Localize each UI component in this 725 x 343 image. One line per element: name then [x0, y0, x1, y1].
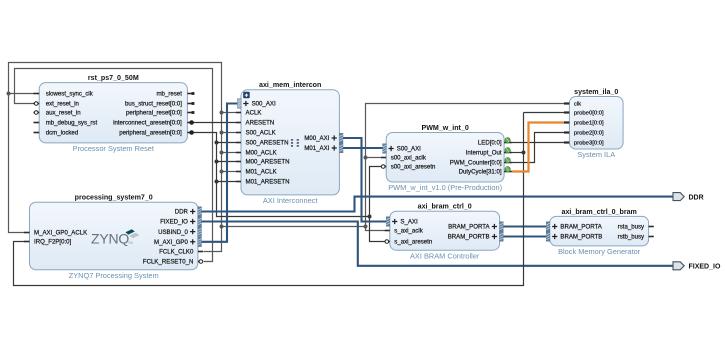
wire peripheral_aresetn to s_axi_aresetn	[370, 217, 385, 242]
svg-text:rsta_busy: rsta_busy	[618, 224, 645, 231]
svg-text:M01_ARESETN: M01_ARESETN	[246, 179, 290, 186]
port FIXED_IO	[673, 262, 721, 271]
pins system_ila left	[564, 102, 604, 147]
svg-text:S00_AXI: S00_AXI	[252, 101, 276, 108]
svg-text:BRAM_PORTB: BRAM_PORTB	[560, 234, 602, 241]
pins bram left	[546, 222, 603, 242]
logo ZYNQ	[91, 229, 139, 246]
svg-text:S00_ACLK: S00_ACLK	[246, 130, 276, 137]
svg-text:BRAM_PORTB: BRAM_PORTB	[448, 234, 490, 241]
svg-text:USBIND_0: USBIND_0	[158, 229, 188, 236]
svg-text:PWM_w_int_v1.0 (Pre-Production: PWM_w_int_v1.0 (Pre-Production)	[388, 183, 502, 192]
pins bram right	[618, 224, 654, 241]
wire FCLK_CLK0 east branch	[222, 227, 385, 231]
svg-text:aux_reset_in: aux_reset_in	[46, 110, 81, 117]
svg-text:ext_reset_in: ext_reset_in	[46, 101, 79, 108]
svg-text:S00_ARESETN: S00_ARESETN	[246, 140, 289, 147]
svg-text:LED[0:0]: LED[0:0]	[478, 140, 502, 147]
node FCLK dots on vertical	[220, 111, 224, 115]
svg-text:M00_ACLK: M00_ACLK	[246, 150, 277, 157]
wire peripheral_aresetn trunk	[193, 133, 370, 217]
svg-text:S_AXI: S_AXI	[400, 219, 418, 226]
wire peripheral_aresetn M00_ARESETN	[217, 161, 237, 163]
pins PWM left	[381, 144, 435, 171]
wire FCLK_CLK0 main loop	[9, 63, 222, 252]
svg-text:TM: TM	[128, 241, 133, 245]
wire FCLK_CLK0 ACLK branch	[222, 112, 237, 114]
wire peripheral_aresetn to s00_axi_aresetn	[370, 167, 382, 217]
block axi_bram_ctrl_0	[390, 203, 500, 261]
svg-text:interconnect_aresetn[0:0]: interconnect_aresetn[0:0]	[113, 120, 182, 127]
pins interconnect right M00_AXI M01_AXI	[304, 133, 343, 153]
block system_ila_0	[569, 88, 623, 159]
pins zynq left	[24, 230, 87, 246]
block PWM_w_int_0	[386, 124, 504, 192]
svg-text:M01_AXI: M01_AXI	[304, 145, 329, 152]
svg-text:DDR: DDR	[689, 194, 704, 201]
svg-text:peripheral_aresetn[0:0]: peripheral_aresetn[0:0]	[119, 130, 182, 137]
svg-text:probe3[0:0]: probe3[0:0]	[574, 141, 604, 147]
wire FCLK_CLK0 up to s00_axi_aclk and ILA clk	[366, 104, 565, 227]
svg-text:Interrupt_Out: Interrupt_Out	[466, 150, 502, 157]
svg-text:Block Memory Generator: Block Memory Generator	[558, 247, 641, 256]
wire bus FIXED_IO	[202, 222, 674, 266]
wire LED to probe3	[512, 142, 565, 144]
svg-text:M_AXI_GP0_ACLK: M_AXI_GP0_ACLK	[34, 230, 87, 237]
svg-text:Processor System Reset: Processor System Reset	[73, 144, 154, 153]
svg-text:BRAM_PORTA: BRAM_PORTA	[560, 224, 602, 231]
block axi_mem_intercon	[241, 81, 339, 205]
pins rst right	[113, 91, 194, 137]
block axi_bram_ctrl_0_bram	[550, 208, 649, 256]
svg-text:slowest_sync_clk: slowest_sync_clk	[46, 91, 94, 98]
svg-text:s00_axi_aresetn: s00_axi_aresetn	[391, 164, 436, 171]
wire FCLK_CLK0 S00_ACLK branch	[222, 132, 237, 134]
wire peripheral_aresetn M01_ARESETN	[217, 181, 237, 183]
svg-text:AXI BRAM Controller: AXI BRAM Controller	[410, 251, 480, 260]
svg-text:probe1[0:0]: probe1[0:0]	[574, 121, 604, 127]
svg-text:FIXED_IO: FIXED_IO	[689, 264, 721, 271]
svg-text:M01_ACLK: M01_ACLK	[246, 169, 277, 176]
svg-text:system_ila_0: system_ila_0	[574, 88, 618, 96]
wire Interrupt_Out net	[512, 152, 524, 154]
icon crossbar	[291, 139, 299, 147]
svg-text:System ILA: System ILA	[577, 150, 615, 159]
svg-text:FCLK_RESET0_N: FCLK_RESET0_N	[143, 259, 193, 266]
pins zynq right	[143, 207, 203, 266]
svg-text:rst_ps7_0_50M: rst_ps7_0_50M	[88, 74, 139, 82]
svg-text:dcm_locked: dcm_locked	[46, 130, 79, 137]
svg-text:BRAM_PORTA: BRAM_PORTA	[448, 224, 490, 231]
svg-text:AXI Interconnect: AXI Interconnect	[263, 196, 318, 205]
svg-text:IRQ_F2P[0:0]: IRQ_F2P[0:0]	[34, 239, 72, 246]
svg-text:M_AXI_GP0: M_AXI_GP0	[154, 239, 188, 246]
svg-text:DutyCycle[31:0]: DutyCycle[31:0]	[459, 169, 502, 176]
wire bus DDR	[202, 197, 674, 212]
svg-text:M00_AXI: M00_AXI	[304, 135, 329, 142]
pins rst left	[34, 91, 98, 137]
wire DutyCycle to probe1 (orange)	[512, 123, 565, 172]
wire bus BRAM_PORTA	[503, 225, 546, 227]
svg-text:DDR: DDR	[175, 209, 189, 216]
wire FCLK_CLK0 to slowest_sync_clk	[9, 93, 35, 95]
svg-text:S00_AXI: S00_AXI	[397, 146, 421, 153]
wire bus BRAM_PORTB	[503, 235, 546, 237]
svg-text:clk: clk	[574, 102, 581, 108]
svg-text:s_axi_aresetn: s_axi_aresetn	[394, 239, 432, 246]
wire peripheral_aresetn S00_ARESETN	[217, 142, 237, 144]
svg-text:PWM_Counter[0:0]: PWM_Counter[0:0]	[450, 160, 502, 167]
node FCLK_CLK0 at slowest_sync_clk	[7, 92, 11, 96]
wire interconnect_aresetn to ARESETN	[193, 122, 237, 124]
svg-text:ARESETN: ARESETN	[246, 120, 275, 127]
svg-text:rstb_busy: rstb_busy	[618, 234, 645, 241]
svg-text:mb_debug_sys_rst: mb_debug_sys_rst	[46, 120, 98, 127]
wire FCLK_CLK0 M01_ACLK branch	[222, 171, 237, 173]
block processing_system7_0	[30, 194, 198, 280]
svg-text:axi_bram_ctrl_0_bram: axi_bram_ctrl_0_bram	[562, 208, 637, 216]
svg-text:probe0[0:0]: probe0[0:0]	[574, 111, 604, 117]
svg-text:s00_axi_aclk: s00_axi_aclk	[391, 155, 427, 162]
wire bus M00_AXI to S_AXI	[343, 138, 386, 222]
svg-text:bus_struct_reset[0:0]: bus_struct_reset[0:0]	[125, 101, 182, 108]
svg-text:ZYNQ: ZYNQ	[91, 231, 129, 247]
pins PWM right with debug markers	[450, 138, 512, 176]
pins bram ctrl left	[385, 217, 433, 246]
pins interconnect left	[236, 99, 290, 186]
svg-text:probe2[0:0]: probe2[0:0]	[574, 131, 604, 137]
pins bram ctrl right	[448, 222, 503, 242]
svg-text:processing_system7_0: processing_system7_0	[75, 194, 153, 202]
svg-text:FIXED_IO: FIXED_IO	[160, 219, 188, 226]
svg-text:axi_mem_intercon: axi_mem_intercon	[259, 81, 321, 89]
svg-text:mb_reset: mb_reset	[156, 91, 182, 98]
svg-text:peripheral_reset[0:0]: peripheral_reset[0:0]	[126, 110, 182, 117]
svg-text:FCLK_CLK0: FCLK_CLK0	[159, 249, 194, 256]
icon hierarchy expand	[243, 92, 250, 99]
wire bus M01_AXI to S00_AXI of PWM	[343, 147, 383, 149]
wire FCLK_RESET0_N	[15, 69, 213, 262]
wire FCLK_CLK0 M00_ACLK branch	[222, 152, 237, 154]
svg-text:ACLK: ACLK	[246, 110, 262, 117]
svg-text:ZYNQ7 Processing System: ZYNQ7 Processing System	[69, 271, 159, 280]
wire bus M_AXI_GP0 to S00_AXI	[202, 104, 238, 242]
svg-text:s_axi_aclk: s_axi_aclk	[394, 228, 423, 235]
block rst_ps7_0_50M	[39, 74, 187, 153]
svg-text:PWM_w_int_0: PWM_w_int_0	[421, 124, 468, 132]
svg-text:M00_ARESETN: M00_ARESETN	[246, 159, 290, 166]
svg-text:axi_bram_ctrl_0: axi_bram_ctrl_0	[418, 203, 472, 211]
wire PWM_Counter to probe2	[512, 133, 565, 163]
port DDR	[673, 193, 704, 202]
